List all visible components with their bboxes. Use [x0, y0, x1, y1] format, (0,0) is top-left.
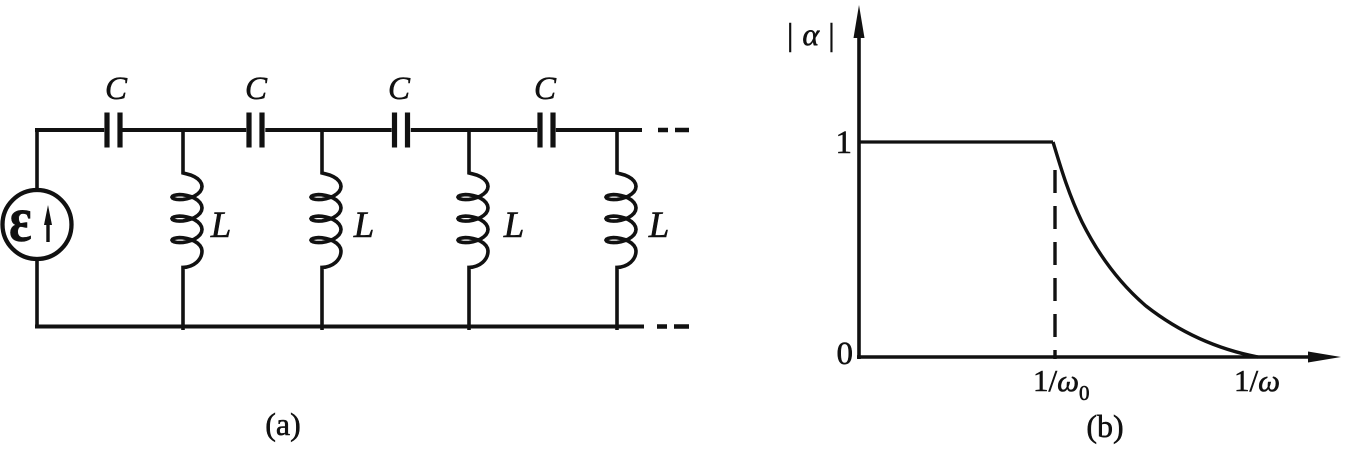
svg-text:C: C — [534, 71, 557, 107]
wire: top rail segment 1 — [35, 128, 104, 132]
capacitor C1 — [107, 113, 120, 148]
inductor L3 (shunt branch with coil) — [458, 128, 488, 330]
inductor L2 (shunt branch with coil) — [311, 128, 341, 330]
svg-text:0: 0 — [837, 336, 854, 372]
svg-text:C: C — [388, 71, 411, 107]
dashed cutoff line at 1/omega_0 — [1053, 170, 1056, 359]
svg-text:1/ω0: 1/ω0 — [1033, 363, 1090, 405]
wire: bottom rail — [35, 325, 644, 329]
svg-text:(a): (a) — [265, 406, 301, 442]
svg-text:L: L — [210, 205, 232, 246]
svg-text:L: L — [503, 205, 525, 246]
svg-text:1/ω: 1/ω — [1234, 363, 1280, 398]
wire: top rail segment 5 — [556, 128, 642, 132]
response curve: flat passband segment at |alpha|=1 — [859, 140, 1053, 143]
inductor L4 (shunt branch with coil) — [606, 128, 636, 330]
svg-text:ε: ε — [9, 183, 32, 255]
response curve: decaying segment beyond cutoff — [1053, 142, 1258, 357]
x-axis with arrowhead — [857, 352, 1341, 363]
wire: top rail segment 4 — [411, 128, 537, 132]
svg-text:|α|: |α| — [787, 16, 835, 52]
svg-text:L: L — [353, 205, 375, 246]
y-axis with arrowhead — [854, 5, 865, 359]
svg-text:1: 1 — [836, 125, 853, 161]
wire: left vertical (source bottom lead) — [35, 259, 39, 328]
wire: bottom rail continuation dashes — [657, 324, 689, 329]
wire: top rail continuation dashes — [658, 128, 689, 133]
inductor L1 (shunt branch with coil) — [172, 128, 202, 330]
wire: top rail segment 2 — [122, 128, 246, 132]
voltage source EMF (circle with epsilon and up arrow) — [3, 183, 72, 259]
svg-text:C: C — [105, 71, 128, 107]
capacitor C4 — [540, 113, 553, 148]
svg-text:C: C — [245, 71, 268, 107]
wire: top rail segment 3 — [265, 128, 391, 132]
wire: left vertical (source top lead) — [35, 128, 39, 190]
capacitor C2 — [249, 113, 262, 148]
capacitor C3 — [395, 113, 408, 148]
svg-text:(b): (b) — [1086, 408, 1123, 444]
svg-text:L: L — [648, 205, 670, 246]
